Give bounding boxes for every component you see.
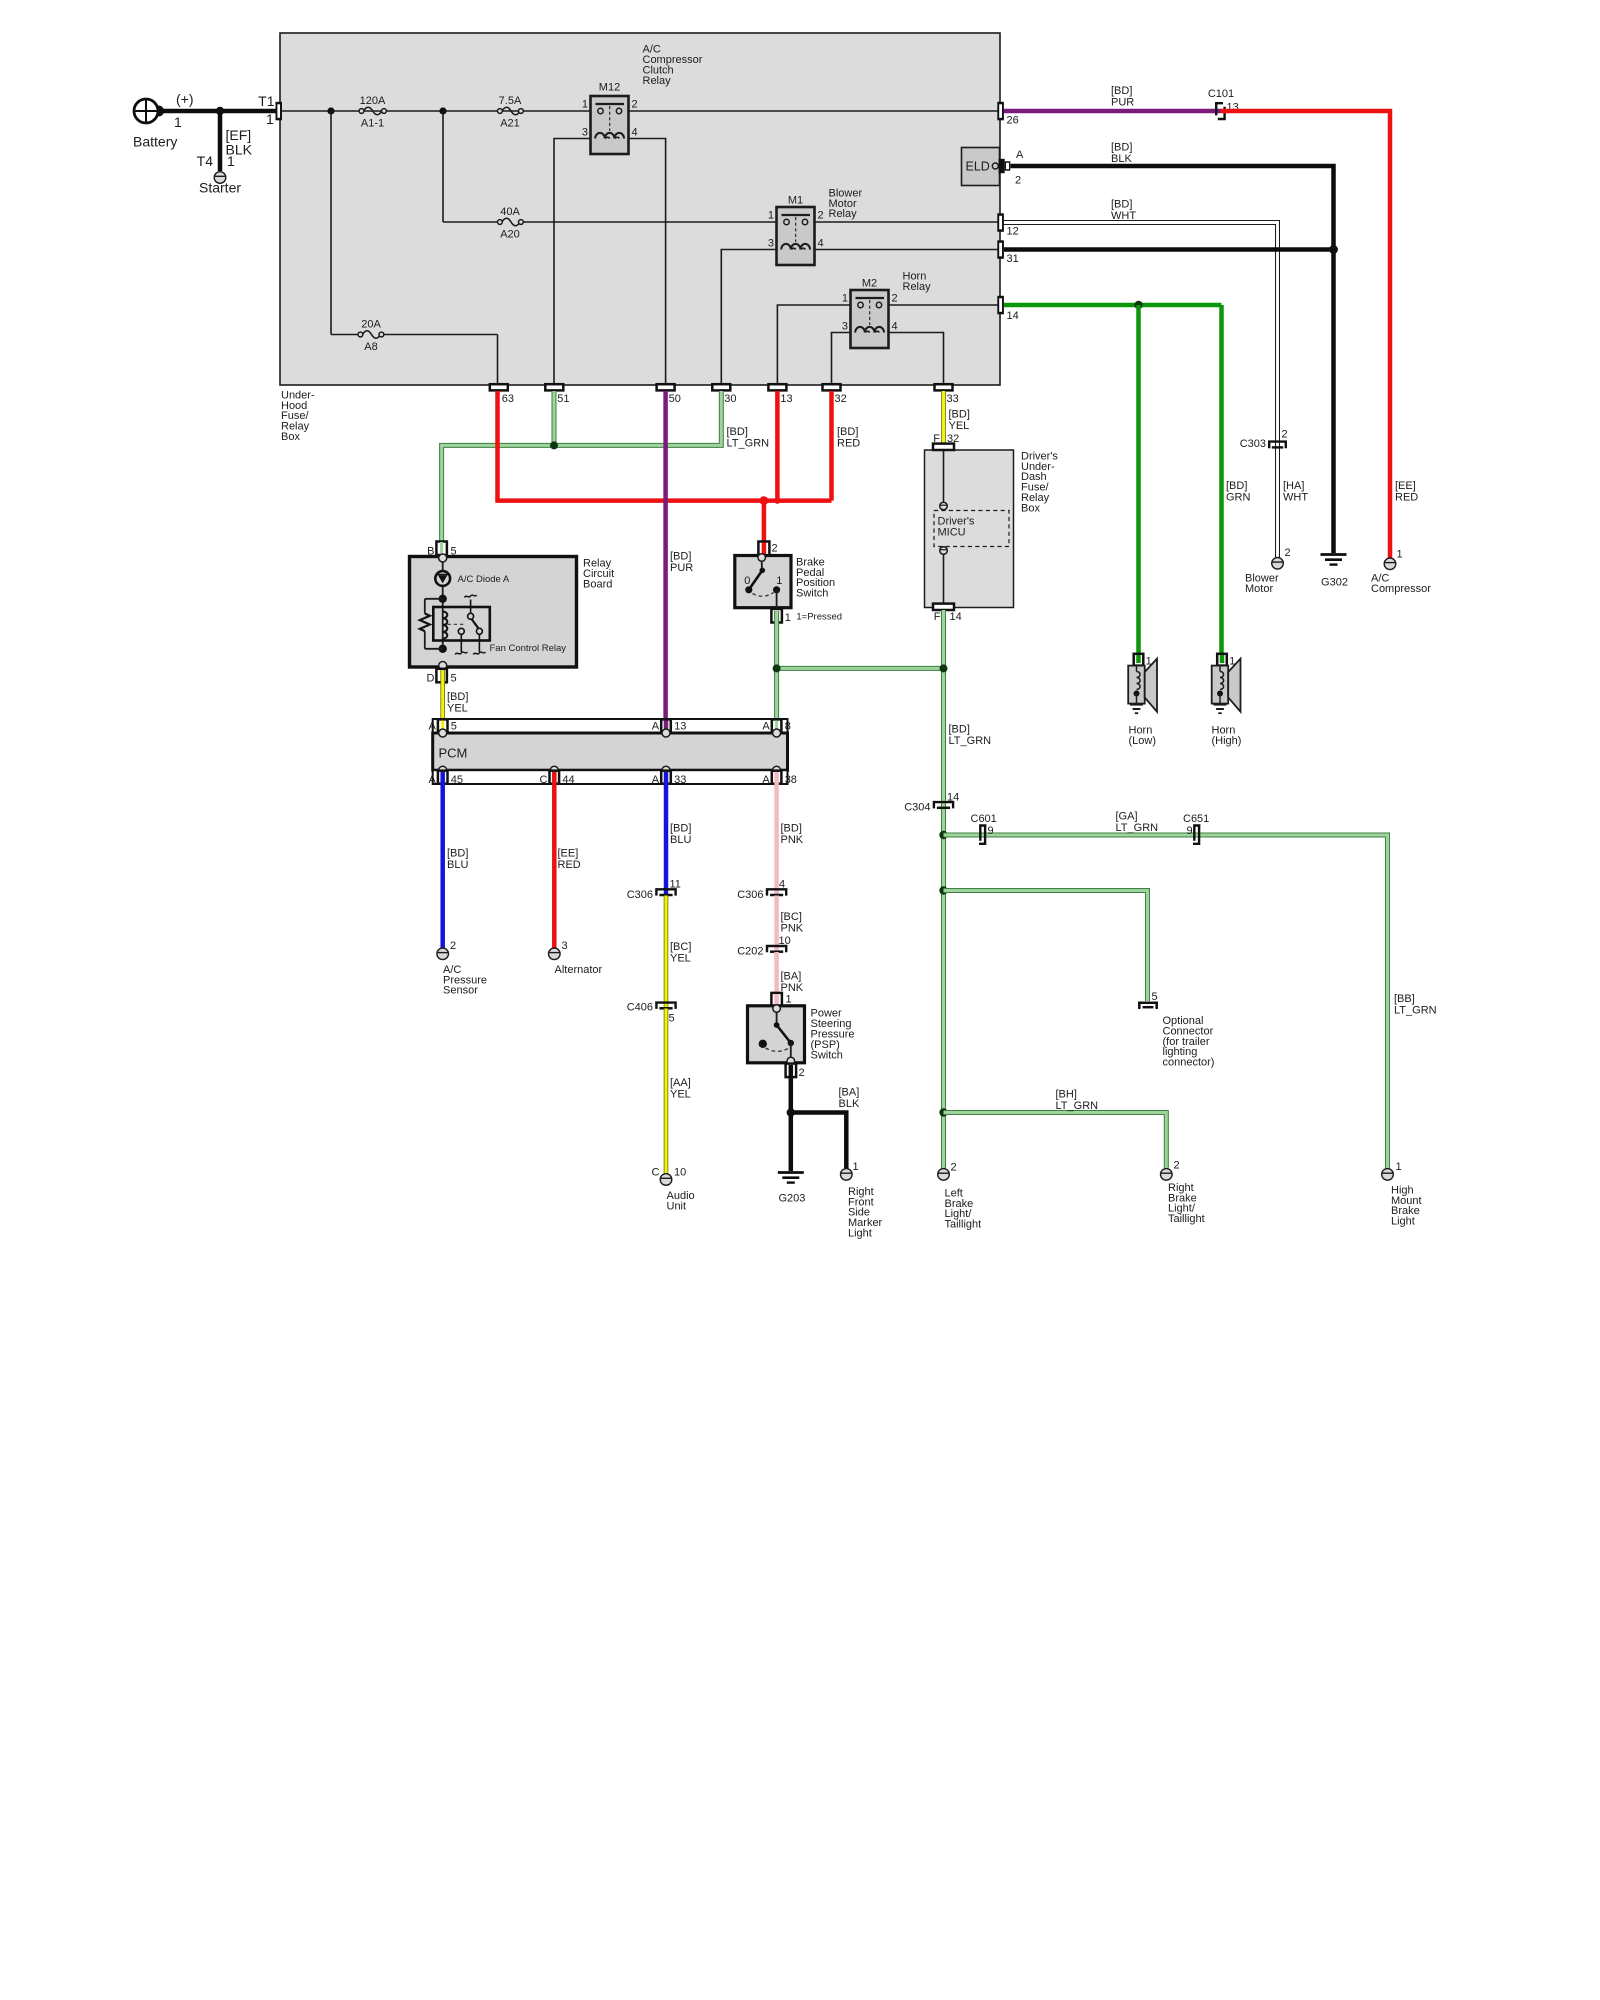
svg-text:3: 3 xyxy=(768,238,774,250)
label Horn (Low) xyxy=(1129,725,1157,747)
port circle board bottom xyxy=(439,662,447,670)
connector C306 pin 11 xyxy=(627,879,681,902)
junction LT_GRN right brake light branch xyxy=(939,1108,947,1116)
svg-text:PNK: PNK xyxy=(781,922,804,934)
svg-text:G302: G302 xyxy=(1321,577,1348,589)
svg-text:1: 1 xyxy=(786,994,792,1006)
svg-text:MICU: MICU xyxy=(938,527,966,539)
terminal left brake light/taillight xyxy=(938,1169,950,1181)
wire [BD] BLK ELD to G302 xyxy=(1011,166,1334,553)
connector C406 pin 5 xyxy=(627,1002,676,1025)
svg-text:[BD]: [BD] xyxy=(1111,85,1132,97)
junction 40A branch xyxy=(439,107,446,114)
svg-text:32: 32 xyxy=(947,433,959,445)
switch fan control relay xyxy=(455,595,485,655)
svg-text:Switch: Switch xyxy=(811,1049,843,1061)
junction LT_GRN at F14 drop xyxy=(940,664,948,672)
connector T1 xyxy=(276,102,283,121)
wire [BD] PUR pad 50 to PCM A13 xyxy=(663,391,668,733)
svg-text:44: 44 xyxy=(562,774,574,786)
svg-text:4: 4 xyxy=(779,879,785,891)
svg-text:A: A xyxy=(762,721,770,733)
svg-text:1: 1 xyxy=(776,575,782,587)
connector 26 xyxy=(997,102,1018,127)
svg-text:63: 63 xyxy=(502,393,514,405)
svg-text:2: 2 xyxy=(632,99,638,111)
svg-text:[BD]: [BD] xyxy=(949,409,970,421)
wire [BD] RED pad 63 down xyxy=(495,391,500,501)
svg-text:51: 51 xyxy=(557,393,569,405)
wire diode to coil xyxy=(442,586,444,649)
svg-text:A20: A20 xyxy=(500,229,520,241)
svg-text:32: 32 xyxy=(835,393,847,405)
svg-text:LT_GRN: LT_GRN xyxy=(1056,1100,1099,1112)
svg-text:1: 1 xyxy=(1396,1161,1402,1173)
svg-text:5: 5 xyxy=(669,1013,675,1025)
svg-text:LT_GRN: LT_GRN xyxy=(949,735,992,747)
connector C601 pin 9 xyxy=(971,813,997,844)
wire [BC] PNK C306 to C202 xyxy=(774,896,779,951)
wire [HA] WHT connector 12 to blower motor xyxy=(1004,223,1278,558)
svg-text:Light: Light xyxy=(848,1228,872,1240)
svg-text:9: 9 xyxy=(988,825,994,837)
wire [BD] BLU A45 to A/C pressure sensor xyxy=(440,772,445,948)
wire [BA] BLK PSP to G203 xyxy=(789,1065,794,1171)
svg-text:A: A xyxy=(652,721,660,733)
wire [BD] PNK A38 to C306 xyxy=(774,772,779,894)
svg-text:2: 2 xyxy=(772,543,778,555)
svg-text:[BD]: [BD] xyxy=(670,823,691,835)
junction battery/starter xyxy=(216,107,224,115)
svg-text:1: 1 xyxy=(1146,656,1152,668)
svg-text:1: 1 xyxy=(266,111,274,127)
horn low unit xyxy=(1128,654,1157,712)
wire [BD] LT_GRN F14 down to taillights xyxy=(941,610,946,1169)
wire [BD] RED pad 13 down xyxy=(775,391,780,501)
svg-text:M2: M2 xyxy=(862,278,877,290)
svg-text:1: 1 xyxy=(842,293,848,305)
ground G302 xyxy=(1321,555,1348,589)
wire [BD] LT_GRN horizontal to F14 drop xyxy=(777,666,944,671)
svg-text:Box: Box xyxy=(281,431,300,443)
svg-text:LT_GRN: LT_GRN xyxy=(1394,1005,1437,1017)
svg-text:C304: C304 xyxy=(904,802,930,814)
svg-text:F: F xyxy=(934,611,941,623)
svg-text:2: 2 xyxy=(1282,429,1288,441)
svg-text:ELD: ELD xyxy=(966,160,990,174)
junction black wires xyxy=(1329,245,1338,254)
svg-text:BLK: BLK xyxy=(1111,153,1132,165)
svg-text:C101: C101 xyxy=(1208,88,1234,100)
svg-text:YEL: YEL xyxy=(949,420,970,432)
label [BA] PNK xyxy=(781,970,804,993)
svg-text:1: 1 xyxy=(1229,656,1235,668)
label Brake Pedal Position Switch xyxy=(796,556,835,599)
svg-text:Sensor: Sensor xyxy=(443,985,478,997)
svg-text:45: 45 xyxy=(451,774,463,786)
label Horn Relay xyxy=(903,271,932,293)
label High Mount Brake Light xyxy=(1391,1184,1422,1227)
svg-text:1: 1 xyxy=(582,99,588,111)
connector C304 pin 14 xyxy=(904,792,959,814)
svg-text:G203: G203 xyxy=(778,1193,805,1205)
power steering pressure PSP switch xyxy=(748,1005,805,1065)
svg-text:A: A xyxy=(762,774,770,786)
svg-text:4: 4 xyxy=(892,321,898,333)
connector 12 xyxy=(997,213,1018,237)
ELD unit xyxy=(962,148,1000,186)
label Horn (High) xyxy=(1212,725,1242,747)
label [GA] LT_GRN xyxy=(1116,811,1159,834)
svg-text:C601: C601 xyxy=(971,813,997,825)
svg-text:Taillight: Taillight xyxy=(1168,1213,1205,1225)
svg-text:[BD]: [BD] xyxy=(727,426,748,438)
label [BB] LT_GRN xyxy=(1394,993,1437,1016)
wire to horn low xyxy=(1136,305,1141,655)
wire battery to T1 (thick) xyxy=(161,109,276,114)
svg-text:Motor: Motor xyxy=(1245,583,1273,595)
svg-text:33: 33 xyxy=(674,774,686,786)
svg-text:[BH]: [BH] xyxy=(1056,1089,1077,1101)
svg-text:[BD]: [BD] xyxy=(1111,142,1132,154)
svg-text:[BD]: [BD] xyxy=(781,823,802,835)
label [EF] BLK xyxy=(226,127,253,158)
svg-text:[EE]: [EE] xyxy=(558,848,579,860)
relay M2 horn relay xyxy=(842,278,898,349)
svg-text:[BA]: [BA] xyxy=(781,970,802,982)
label [BD] BLU mid xyxy=(670,823,691,846)
wire M2 pin1 to pad 13 xyxy=(777,305,850,384)
svg-text:YEL: YEL xyxy=(670,1088,691,1100)
svg-text:3: 3 xyxy=(842,321,848,333)
wire [EE] RED C101 to A/C compressor xyxy=(1221,111,1391,558)
svg-text:A: A xyxy=(428,774,436,786)
junction 20A branch xyxy=(327,107,334,114)
wire [BD] LT_GRN pad 51 down xyxy=(552,391,557,445)
svg-text:Light: Light xyxy=(1391,1216,1415,1228)
label Blower Motor Relay xyxy=(829,187,863,220)
svg-text:Box: Box xyxy=(1021,502,1040,514)
svg-text:C: C xyxy=(539,774,547,786)
svg-text:BLU: BLU xyxy=(447,859,468,871)
wire [BC] YEL C306 to C406 xyxy=(664,896,669,1008)
junction red pad 13 xyxy=(774,497,780,503)
pin A8 PCM xyxy=(762,719,790,737)
svg-text:A: A xyxy=(652,774,660,786)
svg-text:9: 9 xyxy=(1186,825,1192,837)
label A/C Pressure Sensor xyxy=(443,964,487,997)
under-hood fuse/relay box xyxy=(280,33,1000,385)
wire M2 pin4 to pad 33 xyxy=(889,333,944,385)
svg-text:A1-1: A1-1 xyxy=(361,118,384,130)
terminal MICU upper xyxy=(940,502,948,510)
label [BD] GRN xyxy=(1226,480,1251,503)
svg-text:WHT: WHT xyxy=(1111,210,1136,222)
connector C306 pin 4 xyxy=(737,879,786,902)
svg-text:3: 3 xyxy=(582,127,588,139)
wire T1 to M12 pin1 xyxy=(282,110,591,112)
svg-text:Taillight: Taillight xyxy=(945,1219,982,1231)
junction black G203 xyxy=(787,1108,795,1116)
wire [EE] RED C44 to alternator xyxy=(552,772,557,948)
connector C303 pin 2 xyxy=(1240,429,1288,451)
wire MICU internal lower xyxy=(943,554,945,604)
svg-text:A/C Diode A: A/C Diode A xyxy=(458,574,510,585)
wire [BD] RED pad 32 down xyxy=(829,391,834,501)
connector C101 pin 13 xyxy=(1208,88,1239,119)
svg-text:5: 5 xyxy=(1152,991,1158,1003)
pad 51 xyxy=(545,384,569,405)
wire 20A branch xyxy=(331,111,498,384)
svg-text:7.5A: 7.5A xyxy=(499,95,522,107)
svg-text:2: 2 xyxy=(951,1162,957,1174)
connector C651 pin 9 xyxy=(1183,813,1209,844)
svg-text:1: 1 xyxy=(853,1161,859,1173)
svg-text:PUR: PUR xyxy=(1111,96,1134,108)
svg-text:A: A xyxy=(1016,149,1024,161)
label [HA] WHT xyxy=(1283,480,1308,503)
connector optional pin 5 xyxy=(1138,991,1158,1009)
svg-text:12: 12 xyxy=(1007,226,1019,238)
svg-text:1: 1 xyxy=(227,153,235,169)
svg-text:2: 2 xyxy=(450,940,456,952)
label Blower Motor xyxy=(1245,573,1279,595)
svg-text:C306: C306 xyxy=(627,889,653,901)
svg-text:PNK: PNK xyxy=(781,834,804,846)
svg-text:[BD]: [BD] xyxy=(949,724,970,736)
PCM unit xyxy=(433,719,788,784)
svg-text:D: D xyxy=(427,673,435,685)
svg-text:C406: C406 xyxy=(627,1002,653,1014)
wire [BD] GRN connector 14 to horns xyxy=(1004,303,1222,308)
wire [BD] PUR connector 26 to C101 xyxy=(1004,109,1221,114)
label [BD] LT_GRN lower xyxy=(949,724,992,747)
pad 33 xyxy=(935,384,959,405)
wire red to brake pedal switch xyxy=(762,501,767,543)
svg-text:GRN: GRN xyxy=(1226,491,1251,503)
svg-text:1: 1 xyxy=(768,210,774,222)
svg-text:[BD]: [BD] xyxy=(837,426,858,438)
wire to starter [EF] BLK xyxy=(218,111,223,171)
wire [BD] LT_GRN pad 30 to relay circuit board xyxy=(442,391,722,542)
label [BC] PNK xyxy=(781,911,804,934)
label Relay Circuit Board xyxy=(583,558,614,591)
label Right Brake Light/Taillight xyxy=(1168,1182,1205,1225)
label Power Steering Pressure (PSP) Switch xyxy=(811,1008,855,1062)
svg-text:[BD]: [BD] xyxy=(1111,199,1132,211)
connector A ELD xyxy=(999,159,1011,173)
svg-text:F: F xyxy=(933,433,940,445)
wire M12 pin4 to pad 50 xyxy=(629,139,666,385)
svg-text:1: 1 xyxy=(785,612,791,624)
wire [BD] BLU A33 to C306 xyxy=(664,772,669,894)
label Audio Unit xyxy=(667,1190,695,1212)
terminal starter xyxy=(214,172,226,184)
svg-text:0: 0 xyxy=(744,575,750,587)
pin A5 PCM xyxy=(428,719,456,737)
relay circuit board B5 pad xyxy=(427,542,456,558)
svg-text:A: A xyxy=(428,721,436,733)
label [BD] YEL lower xyxy=(447,691,468,714)
label Driver's Under-Dash Fuse/Relay Box xyxy=(1021,450,1058,514)
svg-text:WHT: WHT xyxy=(1283,491,1308,503)
label [BD] WHT xyxy=(1111,199,1136,222)
svg-text:Battery: Battery xyxy=(133,134,177,150)
svg-text:(High): (High) xyxy=(1212,735,1242,747)
svg-text:LT_GRN: LT_GRN xyxy=(1116,822,1159,834)
label [BD] RED xyxy=(837,426,860,449)
svg-text:[BD]: [BD] xyxy=(670,551,691,563)
svg-text:Switch: Switch xyxy=(796,588,828,600)
pin A45 PCM xyxy=(428,766,463,786)
svg-text:Starter: Starter xyxy=(199,180,241,196)
junction red brake switch xyxy=(760,496,769,505)
svg-text:BLK: BLK xyxy=(839,1098,860,1110)
svg-text:31: 31 xyxy=(1007,253,1019,265)
svg-text:33: 33 xyxy=(947,393,959,405)
junction LT_GRN brake switch xyxy=(773,664,781,672)
diode A/C diode A xyxy=(435,571,450,586)
pad 32 xyxy=(823,384,847,405)
svg-text:[BD]: [BD] xyxy=(447,848,468,860)
svg-text:RED: RED xyxy=(837,437,860,449)
label A/C Compressor Clutch Relay xyxy=(643,44,703,87)
svg-text:C651: C651 xyxy=(1183,813,1209,825)
svg-text:LT_GRN: LT_GRN xyxy=(727,437,770,449)
label Left Brake Light/Taillight xyxy=(945,1187,982,1230)
pad pin 2 brake pedal switch xyxy=(758,542,777,556)
junction LT_GRN C601 branch xyxy=(939,831,947,839)
svg-text:1=Pressed: 1=Pressed xyxy=(796,612,842,623)
label [AA] YEL xyxy=(670,1077,691,1100)
svg-text:13: 13 xyxy=(674,721,686,733)
svg-text:(+): (+) xyxy=(176,91,194,107)
pin A13 PCM xyxy=(652,719,687,737)
terminal A/C pressure sensor xyxy=(437,948,449,960)
svg-text:[AA]: [AA] xyxy=(670,1077,691,1089)
svg-text:RED: RED xyxy=(1395,491,1418,503)
wire [BA] BLK branch to side marker xyxy=(791,1113,847,1169)
wire [BD] YEL pad 33 to F32 xyxy=(941,391,946,444)
junction horn low xyxy=(1134,301,1142,309)
fuse 120A A1-1 xyxy=(359,95,386,130)
svg-text:40A: 40A xyxy=(500,206,520,218)
svg-text:Relay: Relay xyxy=(643,75,672,87)
svg-text:A8: A8 xyxy=(364,341,377,353)
svg-text:38: 38 xyxy=(785,774,797,786)
terminal audio unit xyxy=(660,1174,672,1186)
wire 40A branch xyxy=(443,111,777,222)
pad D5 xyxy=(427,669,457,685)
wire [BH] LT_GRN to right brake light xyxy=(944,1113,1167,1170)
svg-text:PUR: PUR xyxy=(670,562,693,574)
svg-text:120A: 120A xyxy=(360,95,386,107)
drivers under-dash fuse/relay box xyxy=(925,450,1014,608)
wire [GA] LT_GRN to high mount brake light xyxy=(944,835,1388,1169)
drivers MICU dashed box xyxy=(934,511,1009,547)
svg-text:2: 2 xyxy=(1285,547,1291,559)
svg-text:Relay: Relay xyxy=(829,208,858,220)
wire M2 pin3 to pad 32 xyxy=(832,333,851,385)
wire M12 pin3 to pad 51 xyxy=(554,139,591,385)
wire M2 pin2 to connector 14 xyxy=(889,304,999,306)
wire M1 pin2 to connector 12 xyxy=(815,221,999,223)
label [BD] PNK xyxy=(781,823,804,846)
svg-text:30: 30 xyxy=(724,393,736,405)
svg-text:2: 2 xyxy=(818,210,824,222)
label Under-Hood Fuse/Relay Box xyxy=(281,389,315,443)
junction LT_GRN optional connector branch xyxy=(939,886,947,894)
svg-text:[BD]: [BD] xyxy=(447,691,468,703)
fan control relay box xyxy=(433,607,490,641)
svg-text:C303: C303 xyxy=(1240,438,1266,450)
dashed link coil to switch xyxy=(448,623,465,625)
svg-text:PCM: PCM xyxy=(439,746,468,761)
svg-text:[BA]: [BA] xyxy=(839,1086,860,1098)
svg-text:20A: 20A xyxy=(361,319,381,331)
label [BD] PUR lower xyxy=(670,551,693,574)
junction board lower xyxy=(439,645,447,653)
pad F32 xyxy=(933,433,959,450)
relay circuit board xyxy=(410,557,577,668)
svg-text:50: 50 xyxy=(669,393,681,405)
connector 31 xyxy=(997,240,1018,265)
pad 30 xyxy=(712,384,736,405)
svg-text:(Low): (Low) xyxy=(1129,735,1157,747)
terminal MICU lower xyxy=(940,547,948,555)
label Right Front Side Marker Light xyxy=(848,1186,883,1240)
svg-text:1: 1 xyxy=(174,114,182,130)
fuse 20A A8 xyxy=(358,319,384,354)
svg-text:C306: C306 xyxy=(737,889,763,901)
ground horn high xyxy=(1214,705,1227,714)
svg-text:A21: A21 xyxy=(500,118,520,130)
svg-text:T4: T4 xyxy=(197,153,214,169)
label [EE] RED lower xyxy=(558,848,581,871)
wire [BD] BLK connector 31 to junction xyxy=(1004,247,1334,252)
relay M1 blower motor relay xyxy=(768,195,824,266)
relay M12 A/C compressor clutch relay xyxy=(582,82,638,155)
wire [BA] PNK C202 to PSP switch xyxy=(774,952,779,994)
svg-text:connector): connector) xyxy=(1163,1057,1215,1069)
label [EE] RED xyxy=(1395,480,1418,503)
label [BC] YEL xyxy=(670,941,691,964)
battery B1 xyxy=(134,99,164,123)
svg-text:8: 8 xyxy=(785,721,791,733)
svg-text:14: 14 xyxy=(950,611,962,623)
terminal alternator xyxy=(549,948,561,960)
svg-text:2: 2 xyxy=(1174,1160,1180,1172)
wire to horn high xyxy=(1219,305,1224,655)
svg-text:M12: M12 xyxy=(599,82,620,94)
terminal A/C compressor xyxy=(1384,558,1396,570)
pad pin 2 PSP switch xyxy=(786,1064,805,1079)
label [BD] BLU left xyxy=(447,848,468,871)
label [BA] BLK xyxy=(839,1086,860,1109)
brake pedal position switch xyxy=(735,554,791,608)
svg-text:[BC]: [BC] xyxy=(670,941,691,953)
svg-text:10: 10 xyxy=(674,1167,686,1179)
ground G203 xyxy=(778,1173,806,1205)
pad pin 1 brake pedal switch xyxy=(771,609,790,624)
svg-text:C: C xyxy=(652,1167,660,1179)
wire MICU internal upper xyxy=(943,450,945,503)
coil fan control relay xyxy=(443,612,448,639)
resistor branch fan control relay xyxy=(420,599,443,649)
fuse 40A A20 xyxy=(498,206,524,241)
svg-text:4: 4 xyxy=(632,127,638,139)
terminal high mount brake light xyxy=(1382,1169,1394,1181)
